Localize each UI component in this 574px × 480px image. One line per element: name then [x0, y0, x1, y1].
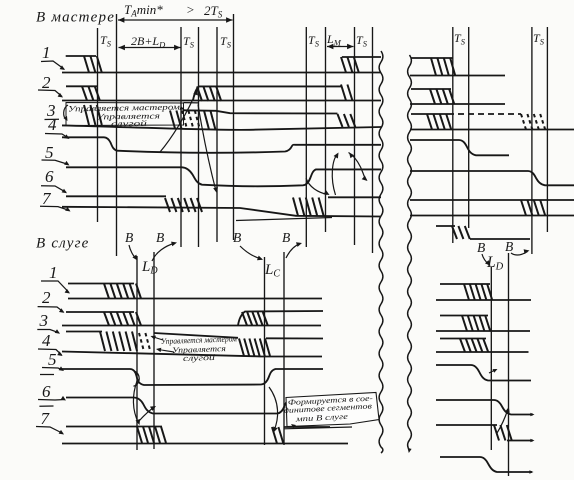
- hatch r-signal 3 dashed: [521, 114, 526, 130]
- wire signal 5 (master): [62, 137, 381, 153]
- hatch s-signal 2 left: [104, 312, 109, 326]
- arrow sig7hatch-up: [332, 154, 337, 195]
- hatch r-signal 1: [431, 58, 436, 76]
- hatch s-signal 7 left: [137, 427, 142, 444]
- hatch s-signal 2 right: [242, 312, 247, 326]
- hatch sr-signal 1: [464, 284, 469, 300]
- wire r-signal 1 high: [411, 57, 453, 59]
- vertical line t6: [325, 27, 327, 232]
- leader arrow signal 7: [40, 206, 70, 210]
- wire sr-signal 2 main: [436, 330, 530, 332]
- svg-text:LM: LM: [326, 32, 342, 48]
- leader arrow s7: [36, 427, 63, 434]
- svg-text:7: 7: [41, 409, 51, 428]
- arrow text-to-hatch 2 (slave): [158, 350, 174, 353]
- wire s-signal 1 high: [68, 283, 134, 285]
- wire s-signal 4 main: [62, 352, 322, 357]
- leader arrow s5: [42, 368, 63, 371]
- wire r-signal 7 lower: [410, 215, 574, 217]
- vertical line right T_S c: [531, 27, 533, 254]
- leader arrow signal 2: [38, 90, 62, 97]
- wire signal 7 lower (master): [62, 207, 381, 217]
- wire signal 6 (master): [66, 167, 381, 186]
- arrow B 4: [286, 244, 300, 258]
- svg-text:TS: TS: [533, 31, 545, 47]
- wire s-signal 3 left: [66, 331, 102, 333]
- svg-text:5: 5: [45, 143, 54, 162]
- svg-text:В: В: [125, 230, 133, 245]
- underline bubble: [284, 427, 352, 429]
- wire s-signal 2 main: [62, 325, 321, 327]
- svg-text:3: 3: [39, 311, 49, 330]
- wire s-signal 5: [62, 369, 323, 385]
- hatch signal 2 transition left: [82, 86, 87, 100]
- wire sr-signal 3 main: [436, 351, 529, 353]
- brace signal 3: [64, 105, 68, 120]
- hatch signal 2 transition mid: [197, 86, 202, 101]
- svg-text:2TS: 2TS: [204, 3, 223, 20]
- arrow B 6: [511, 252, 528, 255]
- wire signal 3 mid (master): [184, 110, 338, 113]
- arrow B 3: [240, 246, 262, 259]
- arrow text-to-hatch 1 (slave): [152, 337, 163, 341]
- wire s-signal 7 upper left: [66, 426, 162, 428]
- wire s-signal 3 mid: [154, 333, 238, 338]
- wire r-signal 8 high: [436, 225, 455, 227]
- wire sr-signal 7 upper: [436, 424, 497, 426]
- bubble note outline: [286, 393, 379, 427]
- svg-text:В: В: [233, 230, 241, 245]
- svg-text:В: В: [282, 230, 290, 245]
- wire sr-signal 2 high: [440, 315, 488, 317]
- wire r-signal 2 main: [410, 103, 505, 105]
- hatch bus 3-4 dashed: [182, 111, 187, 130]
- svg-text:TS: TS: [183, 34, 195, 50]
- wire sr-signal 5: [436, 365, 531, 381]
- arrow B 1: [129, 245, 137, 259]
- leader arrow signal 5: [42, 160, 69, 165]
- arrow L_M dimension: [327, 46, 354, 48]
- vertical line slave L_C a: [264, 257, 266, 445]
- vertical line right T_S d: [546, 27, 548, 232]
- vertical line right T_S a: [452, 27, 454, 243]
- break wavy line left: [379, 51, 383, 453]
- wire signal 4 main (master): [62, 125, 381, 130]
- vertical line slave L_C b: [283, 252, 285, 445]
- wire signal 1 high segment right: [342, 56, 381, 58]
- arrow sig5loop-to-sig7 (slave): [133, 381, 138, 423]
- leader arrow signal 4: [45, 134, 69, 139]
- hatch s-bus 3-4 left: [100, 332, 105, 352]
- svg-text:6: 6: [45, 167, 54, 186]
- svg-text:В: В: [156, 230, 164, 245]
- wire sr-signal 7 lower: [507, 440, 533, 442]
- arrow sr5 dot annotation: [489, 370, 496, 374]
- loop artifact signal 5: [134, 371, 140, 386]
- leader arrow s2: [38, 307, 64, 312]
- wire r-signal 7 upper: [410, 199, 574, 201]
- hatch s-bus 3-4 dashed: [139, 333, 144, 352]
- vertical line slave right L_D b: [508, 253, 510, 476]
- wire r-signal 6: [410, 171, 574, 185]
- hatch r-signal 7: [521, 200, 526, 216]
- hatch s-signal 1: [104, 284, 109, 299]
- vertical line T_S left a: [97, 28, 99, 222]
- svg-text:5: 5: [48, 350, 57, 369]
- hatch sr-signal 2: [462, 316, 467, 332]
- wire r-signal 1 main: [410, 75, 505, 77]
- vertical line t8: [372, 27, 374, 253]
- svg-text:TS: TS: [220, 34, 232, 50]
- wire sr-signal 1 high: [440, 283, 490, 285]
- leader arrow s1: [41, 281, 69, 293]
- svg-text:TS: TS: [454, 31, 466, 47]
- svg-text:TAmin*: TAmin*: [124, 2, 163, 19]
- svg-text:6: 6: [42, 382, 51, 401]
- hatch signal 1 transition left: [84, 56, 89, 73]
- hatch bus 3-4 seg3: [204, 111, 209, 130]
- vertical line slave right L_D a: [490, 267, 492, 450]
- svg-text:2: 2: [42, 73, 51, 92]
- leader arrow s3: [37, 330, 59, 333]
- hatch signal 7 transition 2: [293, 198, 298, 216]
- arrow sig5rise-to-sig7hatch (slave): [269, 387, 278, 431]
- svg-text:LD: LD: [141, 259, 158, 277]
- hatch bus 3-4 right: [338, 114, 343, 127]
- wire signal 2 high segment left: [66, 85, 98, 87]
- arrow bus-to-sig7 annotation: [198, 105, 216, 192]
- wire r-signal 2 high: [411, 88, 451, 90]
- svg-text:TS: TS: [308, 33, 320, 49]
- leader arrow signal 6: [41, 186, 66, 193]
- svg-text:1: 1: [49, 263, 58, 282]
- vertical line right T_S b: [468, 27, 470, 228]
- wire sr-signal 8: [440, 457, 532, 472]
- vertical line t5: [305, 27, 307, 247]
- wire r-signal 3 dashed: [448, 113, 521, 115]
- wire s-signal 3 right: [266, 337, 323, 339]
- arrow sig6rise-to-sig7hatch: [306, 178, 327, 194]
- wire s-signal 7 upper right: [284, 426, 330, 428]
- box controlled-by text (master): [66, 103, 184, 126]
- wire s-signal 2 rise: [238, 311, 323, 326]
- hatch sr-signal 3: [460, 339, 465, 353]
- vertical line T_S left b: [116, 14, 118, 256]
- vertical line slave L_D a: [136, 256, 138, 450]
- arrow 2B+L_D dimension: [119, 47, 181, 49]
- svg-text:LD: LD: [486, 254, 504, 273]
- wire s-signal 6: [66, 398, 297, 414]
- arrow bubble tiny: [291, 424, 296, 428]
- svg-text:7: 7: [42, 189, 52, 208]
- wire r-signal 5: [410, 140, 509, 155]
- svg-text:1: 1: [42, 43, 51, 62]
- wire sr-signal 1 main: [436, 299, 531, 301]
- hatch bus 3-4 under box: [84, 105, 89, 125]
- svg-text:LC: LC: [264, 262, 280, 280]
- arrow sig5-to-sig2 annotation: [160, 91, 197, 152]
- wire signal 1 main (master): [62, 72, 381, 74]
- wire signal 2 rise: [193, 86, 341, 100]
- svg-text:>: >: [186, 2, 195, 17]
- vertical line t4: [233, 14, 235, 240]
- wire s-signal 2 high: [66, 311, 134, 313]
- arrow T_A dimension: [118, 19, 233, 21]
- vertical line t2: [198, 27, 200, 247]
- hatch r-signal 3: [427, 114, 432, 130]
- break wavy line right: [408, 55, 412, 450]
- wire sr-signal 3 high: [440, 338, 486, 340]
- wire signal 7 upper right (master): [328, 196, 381, 198]
- svg-text:TS: TS: [356, 33, 368, 49]
- arrow sr6-sr7 annotation: [497, 409, 508, 433]
- wire r-signal 8 low: [470, 238, 530, 240]
- svg-text:4: 4: [42, 331, 51, 350]
- arrow to sig6 low (slave): [139, 407, 155, 421]
- hatch signal 1 transition right: [341, 57, 346, 73]
- wire signal 1 high segment left: [66, 55, 96, 57]
- arrowhead after text: [180, 106, 185, 110]
- hatch s-signal 7 right: [272, 427, 277, 444]
- svg-text:4: 4: [48, 115, 57, 134]
- vertical line slave L_D b: [153, 252, 155, 449]
- wire s-signal 7 lower: [62, 443, 348, 445]
- svg-text:В мастере: В мастере: [36, 10, 115, 26]
- wire r-signal 3 high: [411, 113, 448, 115]
- hatch r-signal 2: [430, 89, 435, 104]
- leader arrow s4: [38, 349, 62, 355]
- wire r-signal 4 main: [410, 129, 574, 131]
- wire signal 7 upper left (master): [66, 195, 166, 197]
- hatch signal 2 transition right: [341, 85, 346, 101]
- wire signal 2 main (master): [62, 100, 381, 102]
- hatch s-bus 3-4 right: [239, 339, 244, 357]
- vertical line t3: [216, 27, 218, 242]
- svg-text:TS: TS: [100, 33, 112, 49]
- vertical line t7: [354, 27, 356, 245]
- hatch sr-signal 7: [494, 425, 499, 441]
- wire s-signal 1 main: [68, 298, 322, 300]
- hatch signal 7 transition 1: [165, 198, 170, 212]
- hatch r-signal 8: [452, 226, 457, 239]
- arrow falling annotation right: [349, 153, 354, 159]
- arrow B 5: [482, 254, 489, 265]
- vertical line t1: [180, 27, 182, 247]
- svg-text:В: В: [477, 240, 485, 255]
- svg-text:В слуге: В слуге: [36, 236, 89, 252]
- leader arrow signal 1: [41, 61, 64, 69]
- leader arrow s6: [38, 399, 65, 402]
- arrow B 2: [152, 243, 175, 261]
- svg-text:В: В: [505, 239, 513, 254]
- hatch bus 3-4 seg2: [170, 111, 175, 129]
- svg-text:2: 2: [42, 288, 51, 307]
- wire sr-signal 6: [436, 400, 533, 415]
